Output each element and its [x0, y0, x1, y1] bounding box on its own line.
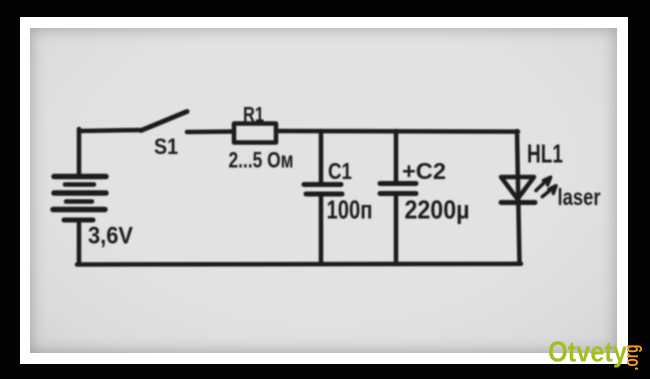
- wire switch to resistor: [187, 129, 234, 134]
- wire left vertical upper: [77, 129, 82, 176]
- wire bottom horizontal: [77, 262, 521, 267]
- svg-text:HL1: HL1: [527, 139, 563, 169]
- svg-text:+C2: +C2: [402, 158, 446, 184]
- LED HL1 triangle: [501, 177, 534, 199]
- svg-text:2200µ: 2200µ: [405, 195, 470, 225]
- wire left vertical lower: [77, 220, 82, 264]
- capacitor C2 plates: [380, 184, 416, 194]
- LED emission arrow 2: [542, 186, 556, 197]
- svg-text:S1: S1: [154, 134, 178, 159]
- svg-text:2...5 Ом: 2...5 Ом: [229, 148, 294, 173]
- LED emission arrow 1: [536, 177, 551, 190]
- wire LED vertical: [517, 131, 520, 264]
- LED HL1 cathode bar: [501, 200, 535, 205]
- wire capacitor C2 vertical upper: [394, 131, 399, 181]
- wire capacitor C1 vertical lower: [319, 196, 324, 264]
- svg-text:laser: laser: [558, 184, 601, 210]
- wire top-left horizontal: [79, 130, 142, 131]
- svg-text:Otvety: Otvety: [548, 337, 627, 369]
- wire capacitor C1 vertical upper: [319, 131, 324, 182]
- svg-text:C1: C1: [328, 158, 352, 184]
- wire resistor to right corner: [276, 129, 518, 134]
- svg-text:3,6V: 3,6V: [88, 223, 133, 250]
- svg-text:R1: R1: [243, 104, 264, 127]
- capacitor C1 plates: [304, 185, 342, 195]
- resistor R1 body: [234, 124, 276, 143]
- switch S1 arm: [141, 112, 187, 131]
- battery 3,6V plates: [53, 177, 106, 221]
- svg-text:100п: 100п: [327, 195, 373, 225]
- wire capacitor C2 vertical lower: [394, 195, 399, 264]
- svg-text:.org: .org: [621, 345, 643, 371]
